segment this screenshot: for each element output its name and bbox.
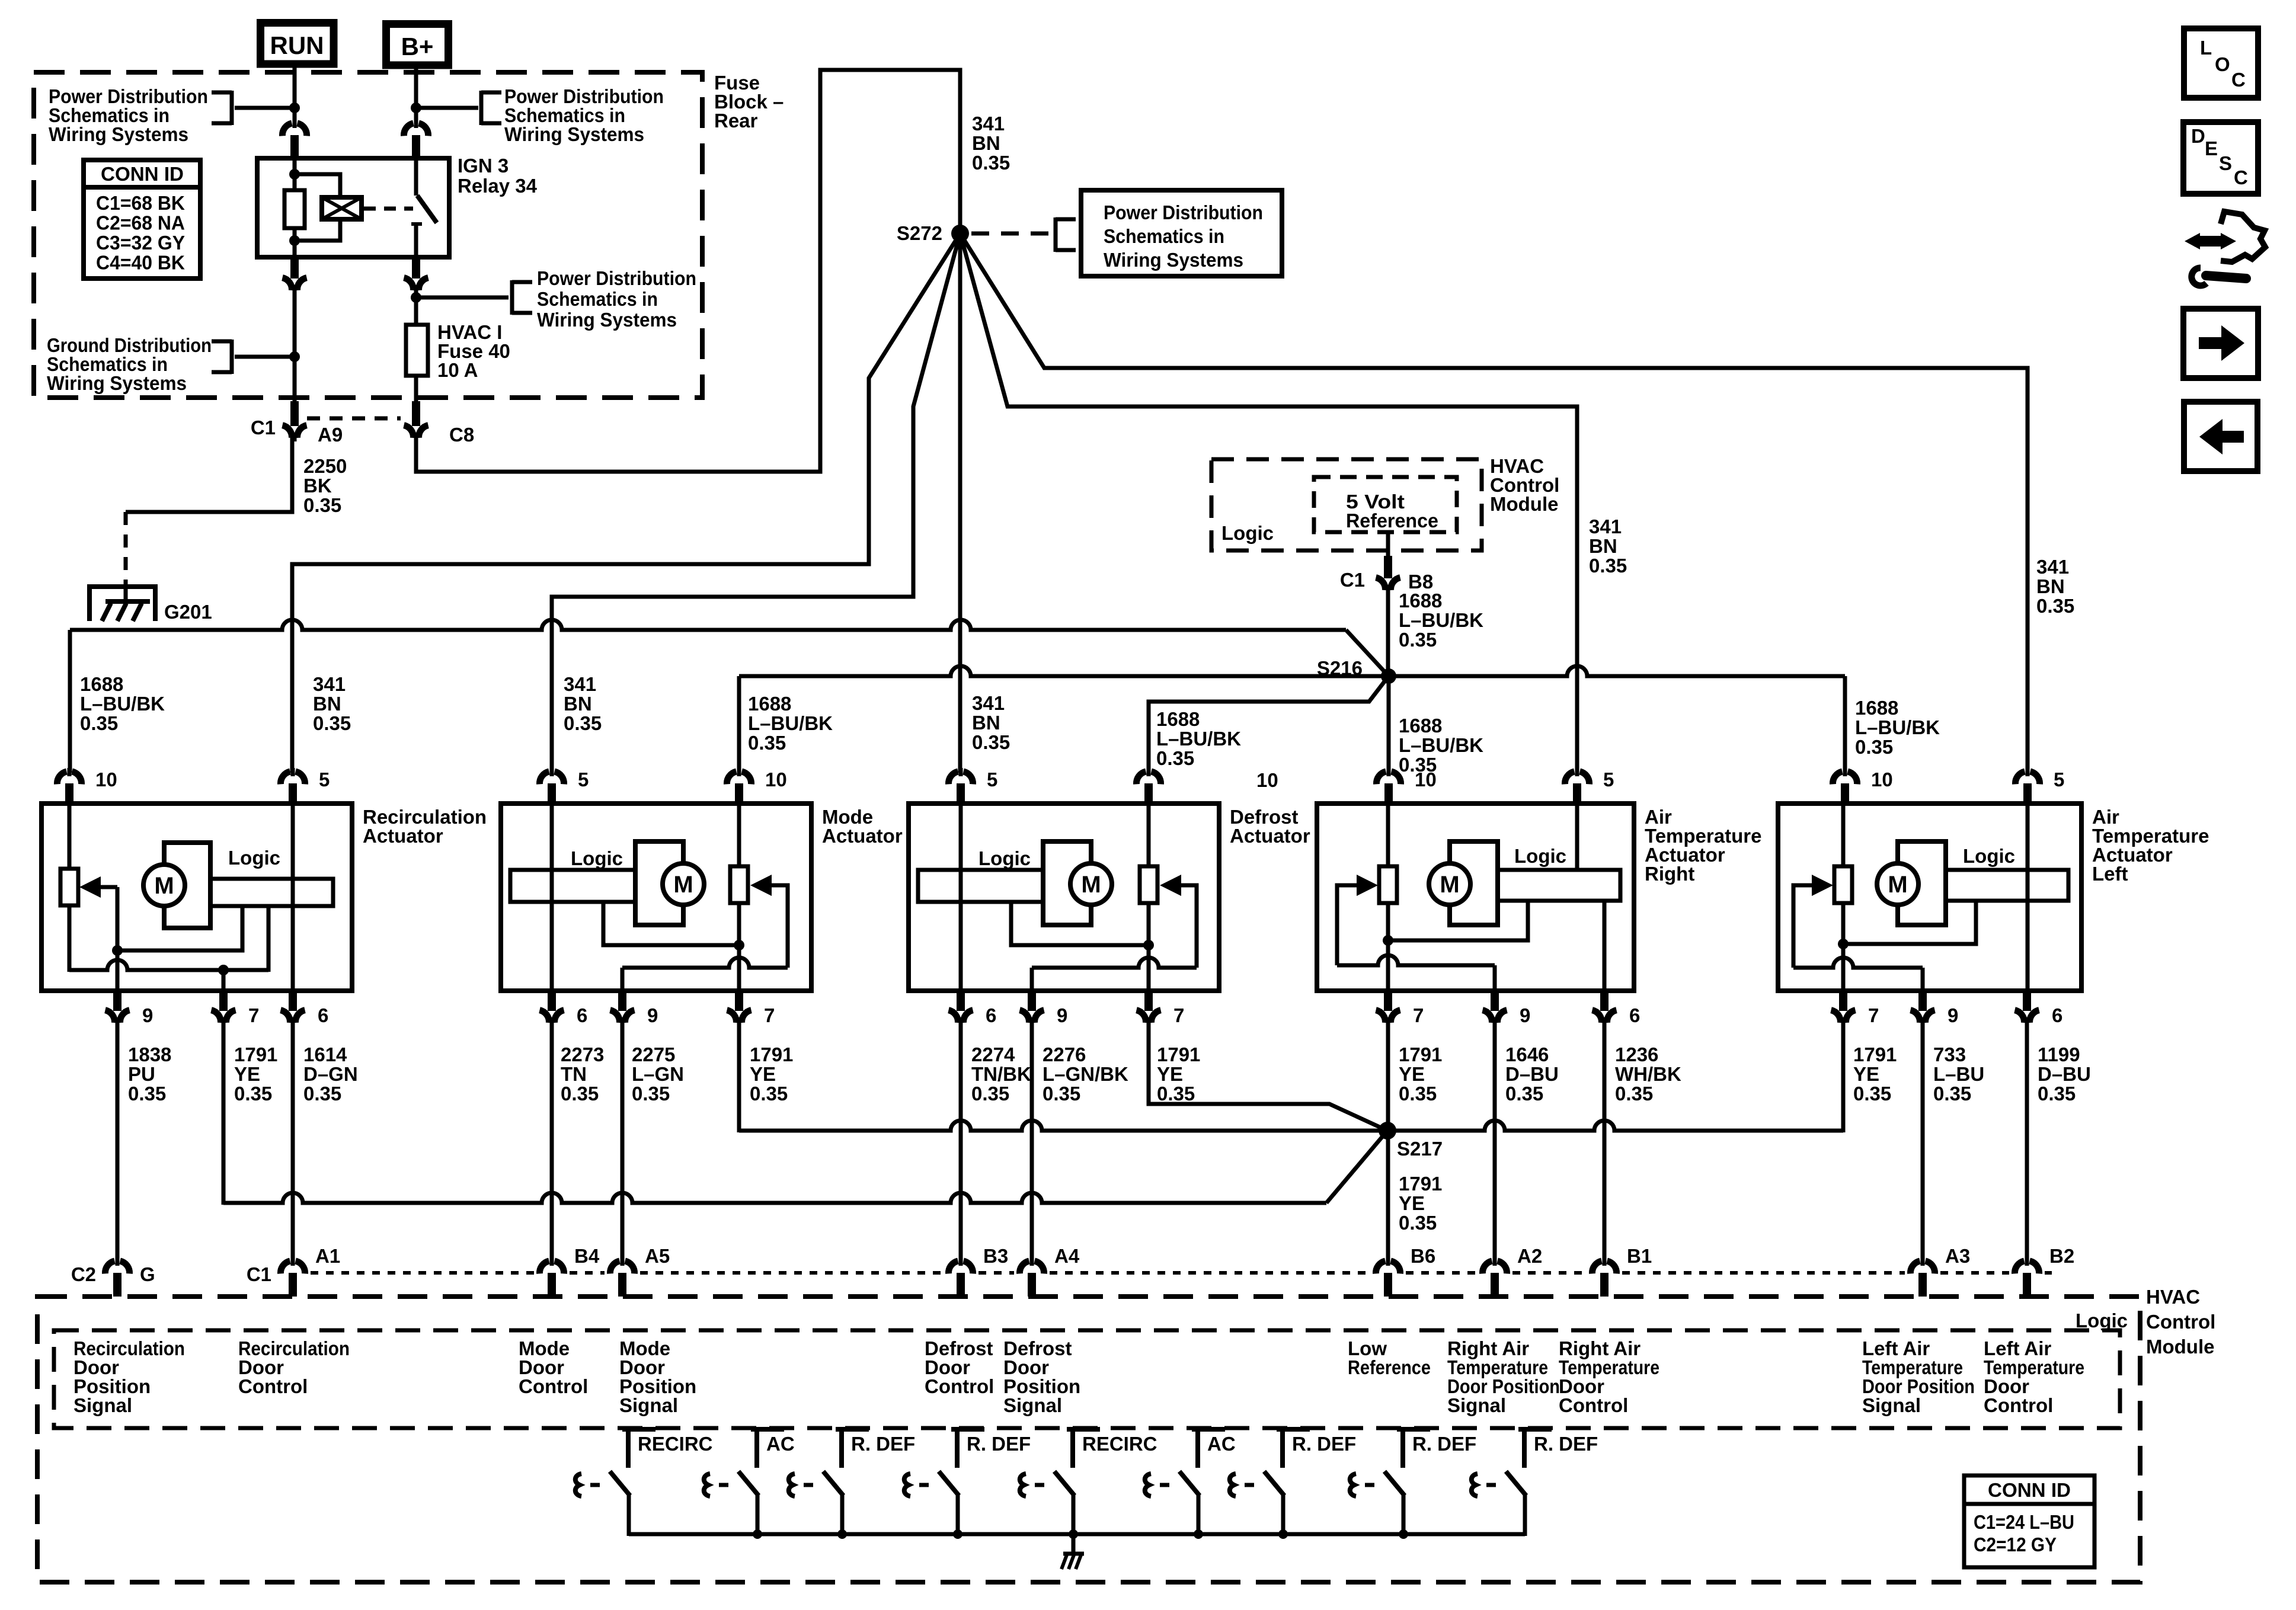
svg-text:2250: 2250 (303, 455, 347, 477)
icon arrow right box (2183, 309, 2258, 378)
svg-text:6: 6 (318, 1004, 328, 1026)
svg-text:1791: 1791 (234, 1044, 277, 1065)
svg-text:0.35: 0.35 (632, 1083, 670, 1105)
svg-text:341: 341 (564, 673, 596, 695)
dotted connector face line (311, 1271, 534, 1275)
svg-text:M: M (154, 873, 174, 899)
junction switch bus (1278, 1529, 1288, 1539)
motor frame Defrost (1043, 841, 1091, 925)
switch RECIRC (5) (1067, 1427, 1100, 1432)
svg-text:BN: BN (1589, 535, 1617, 557)
switch R. DEF (3) (836, 1427, 869, 1432)
wire relay switch top contact (414, 158, 418, 196)
svg-text:0.35: 0.35 (972, 731, 1010, 753)
svg-text:Signal: Signal (619, 1394, 678, 1416)
svg-text:RUN: RUN (270, 31, 324, 59)
icon diagnostic (arrows, panel, wrench) (2194, 236, 2227, 247)
svg-text:M: M (1440, 872, 1459, 898)
switch R. DEF (9) (1518, 1427, 1552, 1432)
switch actuator link RECIRC (1020, 1474, 1026, 1496)
wire ATR pin9 to A2 (1493, 1017, 1497, 1262)
wire pin10 to pot (Mode) (737, 806, 741, 866)
wire pin5 to logic (ATR) (1575, 806, 1579, 870)
svg-text:E: E (2205, 137, 2218, 159)
switch actuator link R. DEF (1230, 1474, 1236, 1496)
svg-text:1646: 1646 (1505, 1044, 1549, 1065)
svg-text:BN: BN (564, 693, 592, 715)
svg-text:10 A: 10 A (437, 359, 478, 381)
wire S216 gamma line Mode pin10 to ATL pin10 (739, 666, 1845, 676)
wire tap to Ground Distribution (235, 355, 295, 359)
wire S216 to Air Temp Right pin10 (1387, 676, 1391, 773)
wire wiper to pin9 (ATR) (1337, 955, 1495, 965)
svg-text:C: C (2231, 69, 2246, 91)
svg-text:Schematics in: Schematics in (537, 288, 658, 310)
svg-text:7: 7 (1413, 1004, 1424, 1026)
svg-text:1688: 1688 (80, 673, 123, 695)
wire wiper feed (Defrost) (1181, 885, 1197, 968)
junction pot-logic (Defrost) (1143, 940, 1154, 950)
connector Air Temp Right pin 9 (1483, 1010, 1507, 1023)
wire to Recirculation pin10 (68, 630, 72, 773)
svg-text:A9: A9 (318, 424, 343, 446)
connector B3 (HVAC control module) (948, 1261, 973, 1273)
svg-text:R. DEF: R. DEF (1292, 1433, 1356, 1455)
svg-text:0.35: 0.35 (1043, 1083, 1080, 1105)
svg-text:YE: YE (750, 1063, 776, 1085)
wire to Air Temp Left pin10 (1843, 676, 1847, 773)
connector Mode pin 7 (727, 1010, 752, 1023)
wire logic position signal (ATL) (1843, 901, 1976, 944)
svg-text:Signal: Signal (1447, 1394, 1506, 1416)
motor M ATL (1877, 863, 1918, 905)
svg-text:1838: 1838 (128, 1044, 171, 1065)
logic box Defrost (918, 870, 1054, 902)
wire RUN to relay (293, 64, 297, 124)
actuator Air Temperature Left box (1778, 804, 2081, 991)
svg-text:0.35: 0.35 (2038, 1083, 2076, 1105)
svg-text:1791: 1791 (1157, 1044, 1200, 1065)
potentiometer Mode (730, 866, 748, 903)
svg-text:PU: PU (128, 1063, 155, 1085)
bracket S272 Power Distribution (1054, 217, 1058, 252)
svg-text:0.35: 0.35 (128, 1083, 166, 1105)
wire S216 branch beta to Defrost pin10 (1149, 676, 1389, 773)
svg-text:10: 10 (1871, 769, 1893, 790)
connector Recirculation pin 5 (280, 772, 305, 784)
svg-text:10: 10 (765, 769, 787, 790)
connector Mode pin 5 (539, 772, 564, 784)
wire Recirc pin9 to G (116, 1017, 120, 1262)
svg-text:2275: 2275 (632, 1044, 675, 1065)
svg-text:5: 5 (1603, 769, 1614, 790)
switch actuator link AC (704, 1474, 710, 1496)
potentiometer Defrost (1140, 866, 1157, 903)
wire Mode pin7 / ATL pin7 low reference line (737, 1017, 741, 1132)
switch actuator link RECIRC (575, 1474, 581, 1496)
svg-text:Logic: Logic (228, 847, 280, 869)
svg-text:0.35: 0.35 (971, 1083, 1009, 1105)
svg-text:WH/BK: WH/BK (1615, 1063, 1681, 1085)
connector A5 (HVAC control module) (610, 1261, 634, 1273)
node RUN tap (289, 103, 300, 113)
svg-text:O: O (2215, 53, 2230, 75)
CONN ID table (module) (1964, 1475, 2094, 1504)
svg-text:5: 5 (2054, 769, 2064, 790)
relay core crossed box (322, 197, 362, 219)
connector G (HVAC control module) (105, 1261, 129, 1273)
wire Mode pin6 to B4 (550, 1017, 554, 1262)
connector Mode pin 9 (610, 1010, 635, 1023)
svg-text:M: M (1081, 872, 1101, 898)
resistor relay coil (284, 190, 305, 228)
wire ATL pin6 to B2 (2025, 1017, 2029, 1262)
svg-text:5: 5 (987, 769, 997, 790)
wire B8 to S216 (1688 L-BU/BK) (1386, 585, 1390, 676)
svg-text:L: L (2200, 37, 2212, 59)
junction wiper-logic (Recirc) (112, 945, 123, 956)
junction pin7 (Recirc) (218, 965, 229, 975)
wire pin5 through logic to pin6 (ATL) (2026, 806, 2030, 991)
switch actuator link R. DEF (1472, 1474, 1478, 1496)
wire to pin9 (ATR) (1493, 965, 1497, 991)
svg-text:9: 9 (142, 1004, 153, 1026)
wire to C1 (293, 285, 297, 401)
arrow pot wiper (ATL) (1812, 875, 1833, 896)
svg-text:L–BU: L–BU (1933, 1063, 1984, 1085)
connector RUN feed (282, 123, 306, 136)
svg-text:Module: Module (2146, 1336, 2214, 1358)
wire wiper to pin9 (Defrost) (1032, 958, 1197, 968)
connector Air Temp Left pin 7 (1831, 1010, 1856, 1023)
svg-text:Wiring Systems: Wiring Systems (47, 372, 187, 394)
svg-text:341: 341 (2036, 556, 2069, 578)
switch R. DEF (4) (951, 1427, 984, 1432)
wire tap to Power Distribution (RUN) (235, 106, 295, 110)
connector Recirculation pin 7 (212, 1010, 236, 1023)
svg-text:1688: 1688 (1399, 590, 1442, 612)
svg-text:6: 6 (577, 1004, 587, 1026)
wire pot low to pin7 (ATL) (1841, 903, 1846, 991)
svg-text:RECIRC: RECIRC (638, 1433, 713, 1455)
svg-text:BK: BK (303, 475, 332, 497)
svg-text:C3=32 GY: C3=32 GY (96, 232, 185, 254)
svg-text:Signal: Signal (73, 1394, 132, 1416)
motor frame Mode (635, 841, 683, 925)
wire 5V ref to B8 (1386, 532, 1390, 557)
wire wiper feed (ATR) (1337, 885, 1357, 965)
wire C8 to S272 (416, 70, 960, 472)
wire logic position signal (Defrost) (1011, 902, 1149, 945)
svg-text:0.35: 0.35 (1855, 736, 1893, 758)
svg-text:Left: Left (2092, 863, 2128, 885)
wire S272 to Defrost pin5 (341 BN) (958, 233, 962, 773)
svg-text:1688: 1688 (1399, 715, 1442, 737)
svg-text:Signal: Signal (1862, 1394, 1921, 1416)
svg-text:C1: C1 (247, 1263, 271, 1285)
connector Defrost pin 9 (1020, 1010, 1044, 1023)
wire pin10 to pot (Defrost) (1147, 806, 1151, 866)
potentiometer ATR (1379, 866, 1397, 903)
connector Air Temp Left pin 10 (1833, 772, 1857, 784)
wire pot low (Recirc) (68, 905, 72, 972)
svg-text:Logic: Logic (571, 847, 623, 869)
svg-text:L–BU/BK: L–BU/BK (1399, 609, 1483, 631)
svg-text:S217: S217 (1397, 1138, 1443, 1160)
wire S272 to Air Temp Left pin5 (341 BN) (960, 233, 2028, 773)
svg-text:TN: TN (561, 1063, 587, 1085)
svg-text:0.35: 0.35 (1156, 747, 1194, 769)
junction switch bus (1194, 1529, 1203, 1539)
svg-text:L–BU/BK: L–BU/BK (1855, 716, 1940, 738)
svg-text:B+: B+ (401, 33, 434, 60)
wire pin5 through logic to pin6 (Recirc) (291, 806, 295, 991)
svg-text:Wiring Systems: Wiring Systems (504, 123, 644, 145)
svg-text:L–GN/BK: L–GN/BK (1043, 1063, 1128, 1085)
wire logic to low ref (Recirc) (267, 906, 271, 972)
svg-text:7: 7 (1868, 1004, 1879, 1026)
connector relay output RUN side (283, 278, 307, 290)
svg-text:0.35: 0.35 (750, 1083, 788, 1105)
wire relay coil bottom (293, 228, 297, 257)
svg-text:YE: YE (234, 1063, 260, 1085)
svg-text:0.35: 0.35 (1505, 1083, 1543, 1105)
svg-text:C2: C2 (71, 1263, 96, 1285)
svg-text:HVAC: HVAC (2146, 1286, 2200, 1308)
wire Recirc pin6 to A1 (291, 1017, 295, 1262)
svg-text:Logic: Logic (2076, 1310, 2128, 1331)
svg-text:S272: S272 (897, 222, 942, 244)
svg-text:1791: 1791 (1399, 1173, 1442, 1195)
svg-text:L–BU/BK: L–BU/BK (1156, 728, 1241, 750)
svg-text:BN: BN (2036, 575, 2065, 597)
svg-text:10: 10 (95, 769, 117, 790)
wire relay switch bottom contact (414, 224, 418, 257)
svg-text:5: 5 (578, 769, 589, 790)
svg-text:C1=24 L–BU: C1=24 L–BU (1974, 1511, 2074, 1533)
wire relay coil top (293, 158, 297, 190)
svg-text:Reference: Reference (1346, 510, 1438, 532)
svg-text:5: 5 (319, 769, 330, 790)
junction relay coil top (289, 169, 300, 180)
svg-text:A5: A5 (645, 1245, 670, 1267)
svg-text:YE: YE (1399, 1063, 1425, 1085)
wire pot low to pin7 (ATR) (1386, 903, 1390, 991)
connector B2 (HVAC control module) (2014, 1261, 2039, 1273)
arrow pot wiper (ATR) (1357, 875, 1378, 896)
wire pot low to pin7 (Defrost) (1147, 903, 1151, 991)
svg-text:0.35: 0.35 (564, 712, 602, 734)
svg-text:2274: 2274 (971, 1044, 1015, 1065)
svg-text:YE: YE (1853, 1063, 1879, 1085)
box Power Distribution Schematics in Wiring Systems (S272) (1081, 190, 1282, 276)
motor frame ATR (1450, 841, 1498, 925)
connector Air Temp Right pin 5 (1565, 772, 1589, 784)
wire wiper feed (ATL) (1793, 885, 1812, 968)
svg-text:1688: 1688 (1156, 708, 1200, 730)
svg-text:Logic: Logic (1963, 845, 2015, 867)
wire pin10 to pot (Recirc) (68, 806, 72, 869)
connector Defrost pin 5 (948, 772, 973, 784)
junction switch bus (1399, 1529, 1408, 1539)
wire wiper to pin9 (Recirc) (116, 887, 120, 991)
relay IGN 3 Relay 34 box (257, 158, 449, 257)
svg-text:0.35: 0.35 (303, 1083, 341, 1105)
svg-text:Actuator: Actuator (1230, 825, 1310, 847)
motor M Mode (663, 863, 704, 905)
svg-text:Wiring Systems: Wiring Systems (537, 309, 677, 331)
svg-text:0.35: 0.35 (1157, 1083, 1195, 1105)
svg-text:341: 341 (972, 113, 1005, 135)
svg-text:1791: 1791 (1853, 1044, 1897, 1065)
svg-text:Rear: Rear (714, 110, 758, 132)
connector B4 (HVAC control module) (539, 1261, 564, 1273)
svg-text:A4: A4 (1054, 1245, 1080, 1267)
svg-text:341: 341 (313, 673, 346, 695)
switch AC (2) (751, 1427, 784, 1432)
svg-text:9: 9 (1948, 1004, 1958, 1026)
svg-text:Relay 34: Relay 34 (458, 175, 538, 197)
switch R. DEF (7) (1277, 1427, 1310, 1432)
svg-text:1688: 1688 (748, 693, 791, 715)
svg-text:Power Distribution: Power Distribution (537, 267, 696, 289)
svg-text:Actuator: Actuator (363, 825, 443, 847)
connector Air Temp Left pin 5 (2015, 772, 2039, 784)
svg-text:Module: Module (1490, 493, 1558, 515)
potentiometer Recirculation (60, 869, 78, 905)
svg-text:AC: AC (1207, 1433, 1236, 1455)
svg-text:IGN 3: IGN 3 (458, 155, 509, 177)
connector A2 (HVAC control module) (1482, 1261, 1507, 1273)
icon LOC box (2184, 28, 2258, 98)
actuator Recirculation box (41, 804, 352, 991)
wire wiper to pin9 (Mode) (622, 958, 788, 968)
motor frame ATL (1898, 841, 1946, 925)
motor M Defrost (1070, 863, 1112, 905)
connector Mode pin 10 (727, 772, 751, 784)
wire pin10 to pot (ATL) (1841, 806, 1846, 866)
svg-text:0.35: 0.35 (1933, 1083, 1971, 1105)
wire to pin7 (Recirc) (222, 970, 226, 991)
svg-text:6: 6 (2052, 1004, 2062, 1026)
svg-text:L–BU/BK: L–BU/BK (80, 693, 165, 715)
svg-text:10: 10 (1256, 769, 1278, 791)
node B+ tap (411, 103, 421, 113)
svg-text:2276: 2276 (1043, 1044, 1086, 1065)
svg-text:1614: 1614 (303, 1044, 347, 1065)
svg-text:C2=68 NA: C2=68 NA (96, 212, 185, 234)
switch actuator link R. DEF (789, 1474, 795, 1496)
svg-text:BN: BN (313, 693, 341, 715)
switch R. DEF (8) (1397, 1427, 1430, 1432)
connector B6 (HVAC control module) (1376, 1261, 1400, 1273)
svg-text:2273: 2273 (561, 1044, 604, 1065)
wire S216 branch alpha to Recirculation pin10 (1346, 630, 1389, 676)
svg-text:Control: Control (1984, 1394, 2053, 1416)
wire pin5 through logic to pin6 (Defrost) (959, 806, 963, 991)
motor M Recirculation (143, 865, 185, 906)
svg-text:S216: S216 (1317, 657, 1363, 679)
wire to pin9 (ATL) (1921, 968, 1925, 991)
wire to pin9 (Defrost) (1030, 968, 1034, 991)
logic box Mode (510, 870, 646, 902)
B+ terminal box (386, 24, 449, 66)
svg-text:0.35: 0.35 (748, 732, 786, 754)
wire Mode pin9 to A5 (621, 1017, 625, 1262)
5 Volt Reference dashed box (1314, 477, 1457, 532)
fuse HVAC I Fuse 40 10A (406, 325, 428, 376)
logic box Recirculation (199, 879, 333, 906)
svg-text:Control: Control (238, 1375, 308, 1397)
connector Air Temp Left pin 9 (1911, 1010, 1935, 1023)
svg-text:S: S (2219, 152, 2232, 174)
node ground tap (289, 351, 300, 362)
svg-text:0.35: 0.35 (303, 494, 341, 516)
wire ATR pin6 to B1 (1603, 1017, 1607, 1262)
HVAC Control Module inner logic dashed box (54, 1330, 2120, 1428)
wire pin5 through logic to pin6 (Mode) (550, 806, 554, 991)
svg-text:B4: B4 (574, 1245, 600, 1267)
svg-text:Actuator: Actuator (822, 825, 903, 847)
svg-text:7: 7 (1173, 1004, 1184, 1026)
svg-text:L–GN: L–GN (632, 1063, 684, 1085)
svg-text:6: 6 (1629, 1004, 1640, 1026)
dashed wire to G201 (124, 512, 128, 585)
svg-text:0.35: 0.35 (234, 1083, 272, 1105)
connector relay output B+ side (404, 278, 428, 290)
svg-text:6: 6 (986, 1004, 996, 1026)
motor M ATR (1429, 863, 1470, 905)
wire 1688 distribution line upper (70, 620, 1346, 630)
svg-text:9: 9 (1520, 1004, 1530, 1026)
wire tap to Power Distribution (fuse) (416, 296, 509, 300)
bracket Power Distribution RUN (230, 91, 234, 125)
wire coil branch to core (295, 174, 340, 197)
connector C8 (404, 425, 428, 438)
connector Recirculation pin 9 (105, 1010, 130, 1023)
svg-text:Logic: Logic (1514, 845, 1566, 867)
switch actuator link AC (1145, 1474, 1151, 1496)
connector B+ feed (404, 123, 428, 136)
svg-text:CONN ID: CONN ID (1988, 1479, 2071, 1501)
svg-text:D: D (2191, 125, 2205, 147)
icon arrow left box (2184, 402, 2257, 471)
svg-text:C1: C1 (1340, 569, 1365, 591)
svg-text:Control: Control (1559, 1394, 1628, 1416)
svg-text:BN: BN (972, 132, 1000, 154)
svg-text:0.35: 0.35 (1399, 1083, 1437, 1105)
svg-text:0.35: 0.35 (1399, 1212, 1437, 1234)
switch actuator link R. DEF (1350, 1474, 1356, 1496)
svg-text:AC: AC (766, 1433, 795, 1455)
svg-text:733: 733 (1933, 1044, 1966, 1065)
svg-text:Wiring Systems: Wiring Systems (49, 123, 188, 145)
svg-text:L–BU/BK: L–BU/BK (1399, 734, 1483, 756)
svg-text:BN: BN (972, 712, 1000, 734)
wire B+ to relay (414, 65, 418, 124)
wire Defrost pin6 to B3 (959, 1017, 963, 1262)
svg-text:7: 7 (248, 1004, 259, 1026)
junction switch bus (1069, 1529, 1078, 1539)
dashed tap S272 (971, 232, 1053, 236)
svg-text:A1: A1 (315, 1245, 340, 1267)
motor frame Recirculation (164, 843, 210, 928)
wire to fuse (414, 285, 418, 325)
connector A1 (HVAC control module) (280, 1261, 305, 1273)
icon DESC box (2183, 122, 2258, 194)
wire pin10 to pot (ATR) (1386, 806, 1390, 866)
switch actuator link R. DEF (904, 1474, 910, 1496)
